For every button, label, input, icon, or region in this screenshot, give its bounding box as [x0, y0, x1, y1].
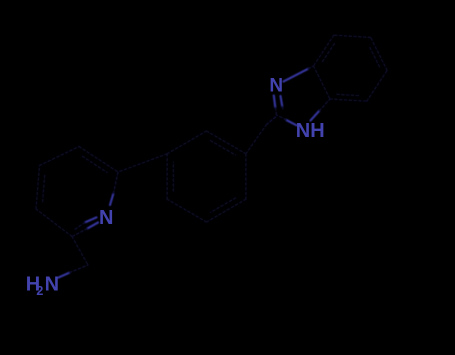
benzimidazole fused bond C3a-C7a — [314, 66, 331, 99]
pyridine N-C6 bond — [110, 194, 113, 206]
svg-text:2: 2 — [36, 284, 43, 298]
pyridine N=C2 double bond — [87, 223, 98, 229]
pyridine inner double bonds — [43, 174, 45, 202]
svg-text:N: N — [99, 207, 113, 229]
benzo ring inner double bonds — [337, 94, 361, 95]
benzimidazole N3=C2 double bond — [274, 96, 276, 108]
benzimidazole C2-N1 bond — [286, 120, 296, 125]
bond benzimidazole C2 to phenylene C1p — [267, 117, 276, 125]
bond phenylene C4p to pyridine C6 — [118, 154, 167, 172]
svg-text:N: N — [269, 76, 283, 97]
central benzene ring — [207, 131, 246, 154]
bond pyridine C2-CH2 — [72, 237, 88, 266]
svg-text:N: N — [45, 273, 59, 295]
bond CH2-NH2 — [58, 273, 70, 278]
benzimidazole N3-C3a bond — [284, 69, 309, 82]
central benzene inner double bonds — [211, 141, 236, 156]
benzo ring of benzimidazole — [330, 99, 367, 101]
pyridine ring C-C bonds — [36, 209, 72, 237]
benzimidazole N1-C7a bond — [311, 111, 320, 121]
svg-text:NH: NH — [296, 120, 325, 142]
